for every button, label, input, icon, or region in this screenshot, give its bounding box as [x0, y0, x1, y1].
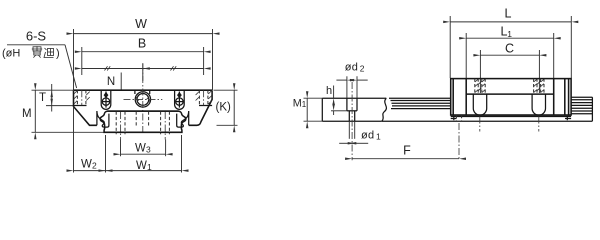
svg-text:1: 1 [376, 131, 381, 141]
label (oH through) [2, 46, 60, 59]
equal-spacing dim line [82, 66, 204, 70]
dim h [326, 85, 347, 115]
bottom seal ticks [451, 116, 571, 120]
left end section boundary [74, 105, 87, 107]
CJK char 2 (tong) [44, 48, 54, 58]
svg-text:1: 1 [302, 100, 307, 109]
svg-text:6-S: 6-S [26, 28, 47, 43]
svg-text:W: W [136, 160, 147, 172]
svg-text:1: 1 [507, 29, 512, 39]
od2 extension lines above [346, 76, 348, 98]
hole head right (hidden) [534, 79, 544, 95]
label 6-S [7, 28, 65, 45]
svg-text:2: 2 [360, 63, 365, 73]
svg-text:h: h [326, 85, 332, 97]
right end hidden hole [198, 90, 200, 105]
svg-text:L: L [505, 7, 512, 21]
svg-text:2: 2 [92, 161, 97, 171]
svg-text:T: T [39, 92, 46, 104]
dim M1 [293, 97, 323, 121]
CJK char 1 (guan) [32, 46, 42, 57]
dim (K) [214, 90, 238, 125]
svg-text:ø: ø [361, 130, 368, 142]
dim B extension lines [81, 47, 83, 75]
dim W2 [74, 159, 106, 171]
svg-text:1: 1 [147, 162, 152, 172]
center tick [142, 63, 144, 81]
U hole left [473, 94, 486, 115]
rail top edge [108, 110, 179, 112]
W extension lines bottom [73, 107, 75, 173]
svg-text:N: N [107, 76, 115, 88]
dim F [352, 144, 459, 159]
break squiggle [382, 98, 387, 121]
rail section left part [322, 98, 386, 121]
hole edge extensions below [348, 121, 350, 139]
dim N [107, 69, 143, 90]
hole head left (hidden) [475, 79, 485, 95]
dim W3 [121, 143, 166, 155]
svg-text:(øH: (øH [2, 48, 20, 60]
hole centerline [351, 82, 353, 160]
rail bottom line [382, 120, 593, 122]
block outline right [189, 90, 212, 125]
dim L1 [466, 25, 554, 79]
svg-text:M: M [22, 108, 32, 120]
svg-text:ø: ø [345, 62, 352, 74]
block top edge [74, 89, 213, 91]
rail side left segment [389, 98, 451, 108]
dim L [450, 7, 571, 79]
left end hatch [74, 91, 90, 104]
dim od2 [336, 62, 367, 81]
svg-text:): ) [56, 48, 60, 60]
block side view outline [451, 79, 571, 117]
dim od1 [339, 130, 381, 144]
dim C [480, 42, 539, 94]
U hole centerlines below [479, 117, 481, 132]
dim W1 [106, 160, 182, 172]
svg-text:B: B [138, 37, 146, 51]
rail hidden holes [116, 112, 169, 140]
left end hidden hole [76, 90, 78, 105]
svg-text:W: W [135, 143, 146, 155]
dim M [22, 90, 104, 132]
dim T [39, 84, 73, 112]
front view centerline [142, 64, 144, 135]
dim W extension lines [73, 29, 75, 90]
block outline left [74, 90, 97, 125]
grease port left [101, 90, 111, 109]
svg-text:C: C [505, 42, 514, 56]
rail right stub [571, 97, 592, 121]
center bolt [124, 90, 163, 107]
svg-text:(K): (K) [216, 101, 232, 113]
dim W line [74, 17, 213, 34]
svg-text:F: F [403, 144, 411, 158]
dim B line [82, 37, 204, 52]
svg-text:d: d [368, 130, 374, 142]
hidden rail hole under block [456, 115, 461, 160]
grease port right [175, 90, 185, 109]
svg-text:d: d [352, 62, 358, 74]
svg-text:W: W [81, 159, 92, 171]
right end hatch [196, 91, 212, 104]
leader line [65, 45, 77, 88]
svg-text:3: 3 [146, 145, 151, 155]
svg-text:W: W [135, 17, 147, 31]
svg-text:M: M [293, 97, 302, 109]
right end section boundary [199, 105, 212, 107]
rail front profile [100, 111, 186, 132]
U hole right [532, 94, 545, 115]
